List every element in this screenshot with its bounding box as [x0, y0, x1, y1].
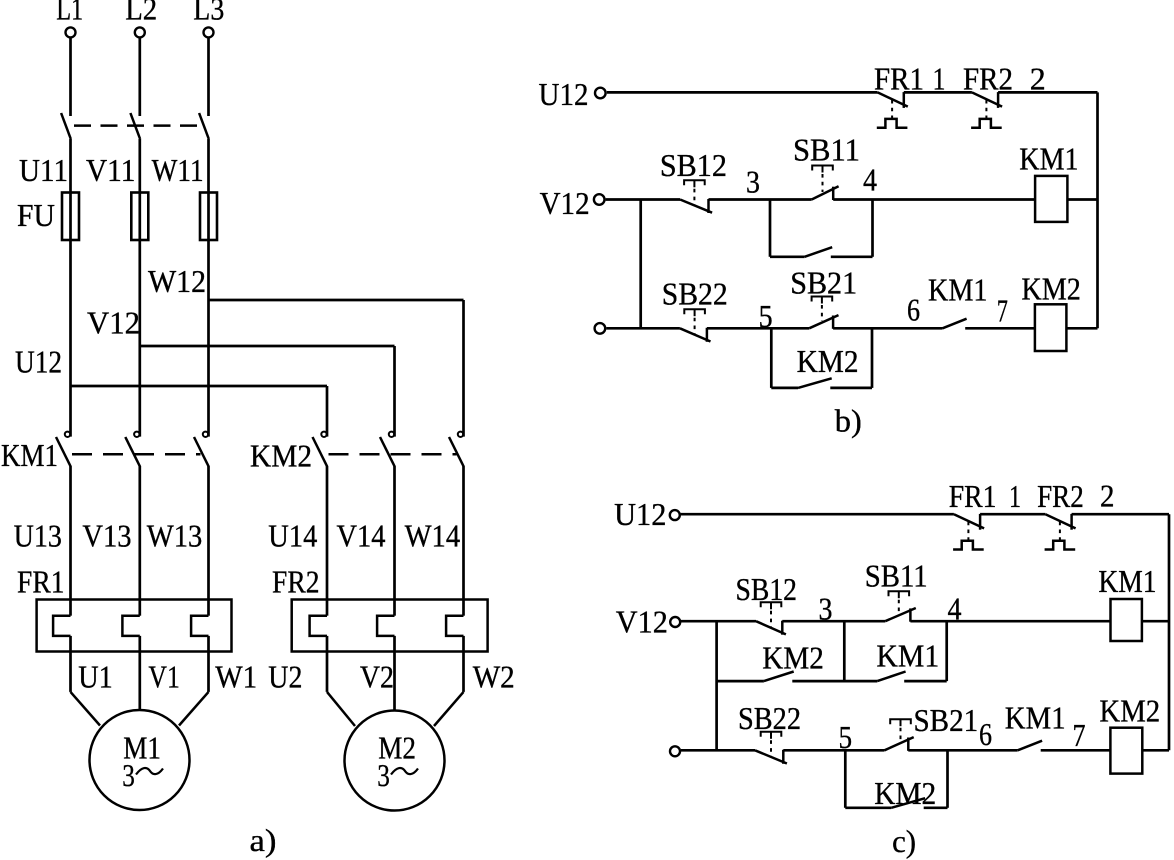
svg-text:U1: U1: [78, 659, 113, 695]
svg-text:KM1: KM1: [928, 272, 988, 308]
svg-text:4: 4: [948, 591, 962, 627]
svg-text:FR1: FR1: [874, 61, 924, 97]
svg-text:KM1: KM1: [1019, 141, 1078, 177]
svg-text:SB22: SB22: [738, 700, 801, 736]
svg-text:KM2: KM2: [1021, 271, 1081, 307]
svg-text:6: 6: [979, 716, 992, 752]
svg-text:KM2: KM2: [762, 640, 824, 676]
svg-text:V2: V2: [360, 659, 394, 695]
svg-text:V12: V12: [616, 604, 668, 640]
svg-text:3: 3: [819, 591, 833, 627]
svg-text:SB12: SB12: [736, 571, 798, 607]
svg-text:7: 7: [997, 293, 1008, 329]
svg-text:V1: V1: [148, 659, 179, 695]
svg-text:U12: U12: [539, 76, 589, 112]
svg-text:KM1: KM1: [876, 638, 939, 674]
svg-text:FR1: FR1: [949, 478, 997, 514]
svg-text:KM2: KM2: [1099, 693, 1160, 729]
svg-text:5: 5: [839, 719, 853, 755]
svg-text:KM1: KM1: [1, 437, 58, 473]
svg-text:V14: V14: [337, 518, 386, 554]
svg-text:3: 3: [122, 757, 135, 793]
svg-text:6: 6: [907, 292, 920, 328]
svg-text:SB12: SB12: [660, 147, 727, 183]
svg-text:KM1: KM1: [1005, 700, 1066, 736]
svg-text:W12: W12: [148, 263, 206, 299]
svg-text:L1: L1: [56, 0, 83, 27]
svg-text:U14: U14: [268, 518, 317, 554]
svg-text:7: 7: [1073, 717, 1086, 753]
svg-text:V11: V11: [86, 152, 135, 188]
svg-text:KM2: KM2: [797, 343, 859, 379]
svg-text:1: 1: [1009, 478, 1021, 514]
svg-text:FR1: FR1: [17, 563, 65, 599]
svg-text:SB11: SB11: [865, 558, 928, 594]
svg-text:c): c): [892, 823, 916, 859]
svg-text:SB22: SB22: [662, 276, 728, 312]
svg-text:b): b): [835, 403, 862, 439]
svg-text:U12: U12: [614, 496, 666, 532]
svg-text:a): a): [250, 822, 277, 858]
svg-text:L3: L3: [193, 0, 224, 27]
svg-text:FR2: FR2: [963, 61, 1013, 97]
svg-text:2: 2: [1100, 478, 1115, 514]
svg-text:U11: U11: [19, 152, 68, 188]
svg-text:V13: V13: [82, 518, 131, 554]
svg-text:3: 3: [746, 164, 760, 200]
svg-text:SB21: SB21: [914, 702, 979, 738]
svg-text:KM2: KM2: [250, 438, 312, 474]
svg-text:FR2: FR2: [1037, 478, 1084, 514]
svg-text:FR2: FR2: [272, 563, 320, 599]
svg-text:U12: U12: [15, 344, 62, 380]
svg-text:W11: W11: [152, 152, 204, 188]
svg-text:KM1: KM1: [1098, 563, 1156, 599]
svg-text:W2: W2: [473, 659, 515, 695]
svg-text:W1: W1: [215, 659, 257, 695]
svg-text:U2: U2: [268, 659, 302, 695]
svg-text:2: 2: [1030, 61, 1046, 97]
svg-text:FU: FU: [17, 197, 55, 233]
svg-text:V12: V12: [87, 305, 140, 341]
svg-text:L2: L2: [125, 0, 157, 27]
svg-text:U13: U13: [14, 518, 62, 554]
svg-text:W14: W14: [405, 518, 461, 554]
svg-text:V12: V12: [540, 185, 590, 221]
svg-text:SB21: SB21: [790, 265, 857, 301]
svg-text:KM2: KM2: [874, 775, 936, 811]
svg-text:4: 4: [863, 162, 877, 198]
svg-text:SB11: SB11: [793, 132, 860, 168]
svg-text:1: 1: [933, 61, 946, 97]
svg-text:W13: W13: [147, 518, 203, 554]
svg-text:3: 3: [377, 757, 390, 793]
